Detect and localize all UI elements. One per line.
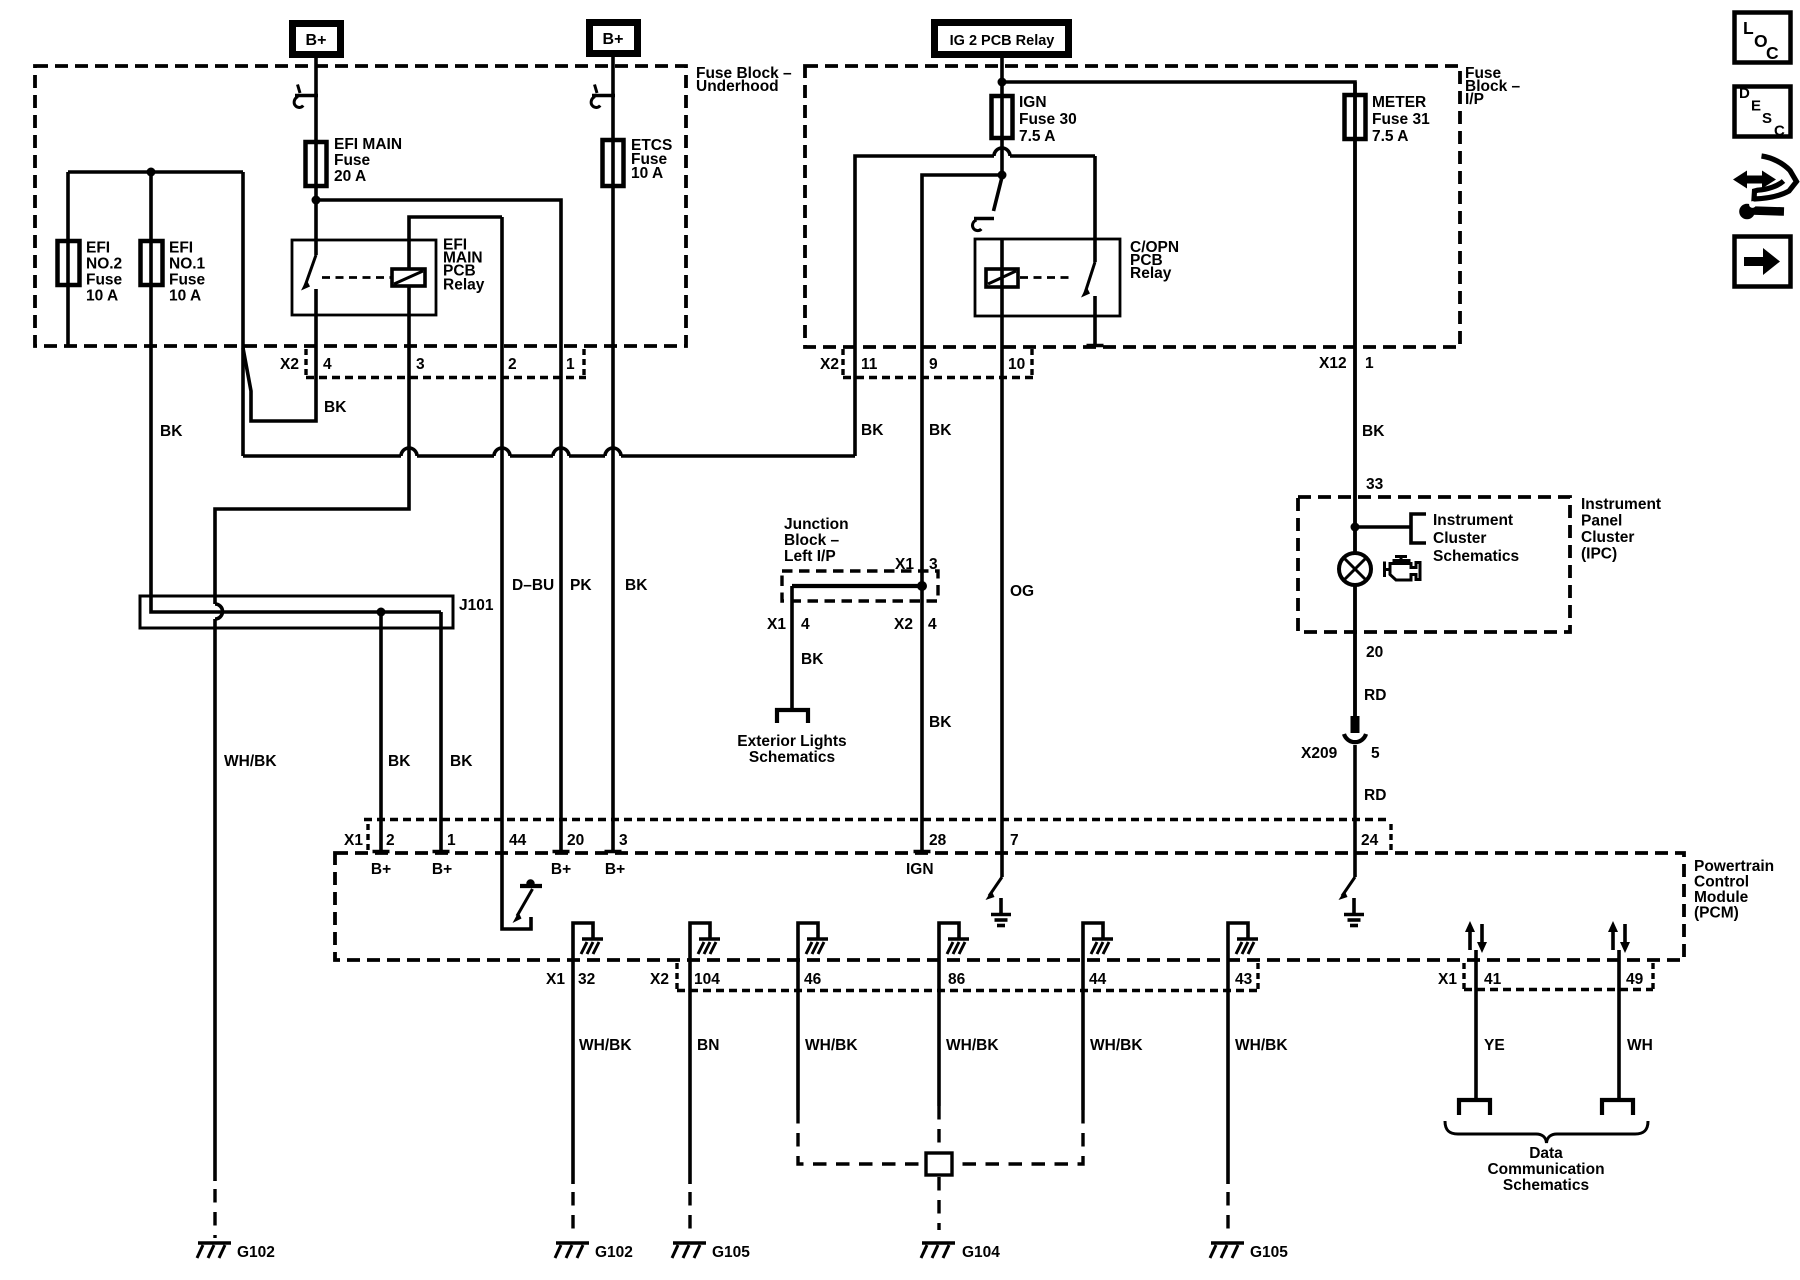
svg-text:X209: X209 <box>1301 745 1338 762</box>
offpage bracket pin41 <box>1459 1100 1490 1115</box>
node EFI MAIN fuse output <box>312 196 321 205</box>
relay C/OPN coil <box>986 269 1018 287</box>
svg-text:X12: X12 <box>1319 355 1347 372</box>
node J101 branch <box>377 608 386 617</box>
svg-text:WH/BK: WH/BK <box>579 1037 632 1054</box>
svg-text:Schematics: Schematics <box>1433 548 1519 565</box>
svg-text:Instrument: Instrument <box>1581 496 1661 513</box>
wire bus left vertical <box>241 172 245 456</box>
svg-text:Fuse 31: Fuse 31 <box>1372 111 1430 128</box>
svg-text:44: 44 <box>1089 971 1107 988</box>
wire lamp to IPC bottom <box>1353 585 1357 717</box>
icon arrow box <box>1735 237 1791 287</box>
svg-text:WH/BK: WH/BK <box>1235 1037 1288 1054</box>
wire IPC branch <box>1355 525 1411 529</box>
wire X209 to PCM pin24 <box>1353 745 1357 877</box>
PCM internal ground pin43 <box>1228 923 1258 960</box>
wire J101 to PCM pin2 <box>379 612 383 851</box>
wire pin104 to G105 <box>688 960 692 1184</box>
svg-text:WH/BK: WH/BK <box>805 1037 858 1054</box>
svg-text:EFI: EFI <box>169 240 193 257</box>
svg-text:EFI MAIN: EFI MAIN <box>334 136 402 153</box>
fuse EFI MAIN <box>306 142 327 186</box>
wire end caps at PCM <box>373 850 931 854</box>
svg-text:D–BU: D–BU <box>512 577 554 594</box>
svg-text:1: 1 <box>447 832 456 849</box>
node IGN fuse top junction <box>998 78 1007 87</box>
icon wrench <box>1739 204 1755 220</box>
svg-text:Control: Control <box>1694 874 1749 891</box>
svg-text:BK: BK <box>388 753 411 770</box>
wire EFI NO.1 down to J101 <box>151 172 441 612</box>
svg-text:NO.2: NO.2 <box>86 256 122 273</box>
svg-text:X1: X1 <box>344 832 363 849</box>
inline connector X209 <box>1351 716 1360 733</box>
fuse EFI NO.2 <box>58 241 80 285</box>
PCM internal ground pin46 <box>798 923 828 960</box>
wire hop over pin3 <box>401 448 417 456</box>
svg-text:Cluster: Cluster <box>1433 530 1486 547</box>
svg-text:E: E <box>1751 98 1761 115</box>
svg-text:Block –: Block – <box>784 532 840 549</box>
svg-text:G102: G102 <box>237 1244 275 1261</box>
relay C/OPN link dashes <box>1020 276 1072 279</box>
svg-text:9: 9 <box>929 356 938 373</box>
battery feed hook 2 <box>591 85 615 108</box>
svg-text:20: 20 <box>1366 644 1383 661</box>
svg-text:2: 2 <box>508 356 517 373</box>
PCM switch pin44 <box>517 889 533 916</box>
svg-text:IG 2 PCB Relay: IG 2 PCB Relay <box>950 33 1055 49</box>
wire relay pin4 U-turn <box>243 289 316 421</box>
svg-text:B+: B+ <box>432 861 452 878</box>
svg-text:4: 4 <box>801 616 810 633</box>
svg-text:11: 11 <box>861 356 878 373</box>
svg-text:S: S <box>1762 110 1772 127</box>
svg-text:3: 3 <box>619 832 628 849</box>
svg-text:C: C <box>1766 43 1779 63</box>
wire J101 to PCM pin1 <box>439 612 443 851</box>
connector X2 underhood bracket <box>304 349 307 377</box>
splice box G104 <box>926 1153 952 1175</box>
svg-text:7.5 A: 7.5 A <box>1019 128 1055 145</box>
svg-text:BK: BK <box>625 577 648 594</box>
svg-text:Junction: Junction <box>784 516 849 533</box>
engine MIL icon <box>1395 557 1407 561</box>
svg-text:10 A: 10 A <box>631 165 663 182</box>
svg-text:Exterior Lights: Exterior Lights <box>737 733 846 750</box>
ignition switch blade <box>994 177 1003 211</box>
earth ground pin24 <box>1344 898 1364 926</box>
icon DESC box <box>1735 87 1791 137</box>
fuse block I/P box <box>805 66 1460 347</box>
wire pin44b dashed to splice <box>1081 960 1085 1110</box>
wire coil top to PCM pin44 <box>502 217 531 929</box>
B+ terminal box 1 <box>293 24 341 55</box>
battery feed hook 1 <box>294 85 318 108</box>
wire pin49 serial data <box>1617 950 1621 1098</box>
wire B+2 down (ETCS feed to PCM pin 3) <box>611 57 615 851</box>
PCM internal ground pin32 <box>573 923 603 960</box>
wire pin43 to G105 <box>1226 960 1230 1184</box>
wire METER into IPC <box>1353 82 1357 553</box>
IG 2 PCB Relay box <box>935 23 1069 55</box>
svg-text:4: 4 <box>323 356 332 373</box>
svg-text:BK: BK <box>1362 423 1385 440</box>
svg-text:B+: B+ <box>605 861 625 878</box>
IPC box <box>1298 497 1570 632</box>
fuse block underhood box <box>35 66 686 346</box>
fuse METER 31 <box>1345 95 1366 139</box>
wire EFI NO.2 branch <box>66 172 70 346</box>
svg-text:20 A: 20 A <box>334 168 366 185</box>
data arrows pin49 <box>1608 921 1630 953</box>
wire hop over pin2 <box>494 448 510 456</box>
svg-text:Powertrain: Powertrain <box>1694 858 1774 875</box>
svg-text:(IPC): (IPC) <box>1581 546 1617 563</box>
wire hop over pin1 <box>553 448 569 456</box>
svg-text:X1: X1 <box>1438 971 1457 988</box>
relay C/OPN switch blade <box>1093 156 1097 262</box>
svg-text:Module: Module <box>1694 889 1749 906</box>
svg-text:BK: BK <box>929 714 952 731</box>
svg-text:G104: G104 <box>962 1244 1000 1261</box>
relay EFI MAIN link dashes <box>322 276 391 279</box>
svg-text:Fuse: Fuse <box>86 272 123 289</box>
relay C/OPN PCB box <box>975 239 1120 316</box>
earth ground pin7 <box>991 898 1011 926</box>
svg-text:7.5 A: 7.5 A <box>1372 128 1408 145</box>
ground G102 left <box>197 1243 231 1258</box>
wire IGN junction to METER fuse <box>1002 82 1355 717</box>
svg-text:(PCM): (PCM) <box>1694 905 1739 922</box>
wire hop over J101 bus <box>215 604 223 619</box>
svg-text:43: 43 <box>1235 971 1253 988</box>
node IPC branch <box>1351 523 1360 532</box>
PCM switch pin7 to ground <box>989 877 1002 896</box>
connector X1 PCM bracket <box>366 824 369 850</box>
data communication brace <box>1445 1121 1648 1143</box>
svg-text:X2: X2 <box>820 356 839 373</box>
svg-text:46: 46 <box>804 971 822 988</box>
svg-text:D: D <box>1739 85 1750 102</box>
svg-text:BK: BK <box>324 399 347 416</box>
svg-text:METER: METER <box>1372 94 1426 111</box>
wire coil bottom to WH/BK ground run <box>215 286 409 604</box>
svg-text:WH/BK: WH/BK <box>224 753 277 770</box>
svg-text:Cluster: Cluster <box>1581 529 1634 546</box>
svg-text:B+: B+ <box>551 861 571 878</box>
svg-text:Instrument: Instrument <box>1433 512 1513 529</box>
svg-text:I/P: I/P <box>1465 91 1484 108</box>
svg-text:B+: B+ <box>371 861 391 878</box>
svg-text:7: 7 <box>1010 832 1019 849</box>
wire pin41 serial data <box>1474 950 1478 1098</box>
svg-text:Fuse: Fuse <box>334 152 371 169</box>
svg-text:86: 86 <box>948 971 966 988</box>
svg-text:B+: B+ <box>306 32 327 49</box>
svg-text:C: C <box>1774 123 1785 140</box>
svg-text:WH/BK: WH/BK <box>946 1037 999 1054</box>
connector X2 PCM bottom bracket <box>675 963 678 989</box>
svg-text:X2: X2 <box>650 971 669 988</box>
svg-text:28: 28 <box>929 832 947 849</box>
icon LOC box <box>1735 13 1791 63</box>
wire pin32 to G102 <box>571 960 575 1184</box>
svg-text:Fuse 30: Fuse 30 <box>1019 111 1077 128</box>
svg-text:Underhood: Underhood <box>696 78 779 95</box>
svg-text:OG: OG <box>1010 583 1034 600</box>
svg-text:G105: G105 <box>1250 1244 1288 1261</box>
wire C/OPN coil to PCM pin7 <box>1000 240 1004 877</box>
fuse EFI NO.1 <box>141 241 163 285</box>
PCM internal ground pin104 <box>690 923 720 960</box>
svg-text:Panel: Panel <box>1581 513 1622 530</box>
svg-text:J101: J101 <box>459 597 494 614</box>
svg-text:32: 32 <box>578 971 595 988</box>
svg-text:1: 1 <box>1365 355 1374 372</box>
svg-text:BK: BK <box>861 422 884 439</box>
relay EFI MAIN switch blade <box>305 255 316 286</box>
offpage bracket exterior lights <box>777 710 808 723</box>
wire IG2 down <box>1000 56 1004 177</box>
wire B+1 down <box>314 58 318 255</box>
icon navigation arrows <box>1733 171 1776 189</box>
svg-text:IGN: IGN <box>1019 94 1047 111</box>
svg-text:WH: WH <box>1627 1037 1653 1054</box>
svg-text:L: L <box>1743 18 1754 38</box>
svg-text:Fuse: Fuse <box>169 272 206 289</box>
wire hop over IGN wire <box>994 148 1010 156</box>
PCM internal ground pin44b <box>1083 923 1113 960</box>
svg-text:B+: B+ <box>603 31 624 48</box>
svg-text:20: 20 <box>567 832 584 849</box>
connector X1 data bracket <box>1462 963 1465 989</box>
svg-text:BN: BN <box>697 1037 719 1054</box>
svg-text:10 A: 10 A <box>86 288 118 305</box>
wire top bus to fuses <box>68 170 243 174</box>
PCM box <box>335 853 1684 960</box>
svg-text:G102: G102 <box>595 1244 633 1261</box>
splice pack J101 <box>140 596 453 628</box>
junction block bus <box>792 584 922 588</box>
svg-text:44: 44 <box>509 832 527 849</box>
svg-text:PK: PK <box>570 577 592 594</box>
offpage bracket instrument cluster <box>1411 514 1426 543</box>
wire ground bus y456 <box>243 454 855 458</box>
svg-text:10: 10 <box>1008 356 1025 373</box>
relay C/OPN switch contact to block edge <box>1093 296 1097 345</box>
relay EFI MAIN PCB box <box>292 240 436 315</box>
wire X2-4 to PCM pin28 <box>920 586 924 851</box>
B+ terminal box 2 <box>590 23 638 54</box>
offpage bracket pin49 <box>1602 1100 1633 1115</box>
svg-text:1: 1 <box>566 356 575 373</box>
svg-text:X1: X1 <box>546 971 565 988</box>
relay EFI MAIN coil feed U <box>409 217 502 269</box>
svg-text:33: 33 <box>1366 476 1384 493</box>
svg-text:41: 41 <box>1484 971 1502 988</box>
svg-text:X1: X1 <box>895 556 914 573</box>
svg-text:NO.1: NO.1 <box>169 256 206 273</box>
svg-text:RD: RD <box>1364 787 1386 804</box>
wire fuse output to relay pin1 feed <box>316 200 561 851</box>
svg-text:5: 5 <box>1371 745 1380 762</box>
node junction block <box>917 581 927 591</box>
svg-text:3: 3 <box>416 356 425 373</box>
wire pin46 dashed to splice <box>796 960 800 1110</box>
svg-text:Relay: Relay <box>1130 265 1172 282</box>
svg-text:BK: BK <box>160 423 183 440</box>
svg-text:Schematics: Schematics <box>749 749 835 766</box>
wire bus right vertical to C/OPN <box>855 156 1095 456</box>
ignition switch hook <box>974 217 994 221</box>
svg-text:2: 2 <box>386 832 395 849</box>
svg-text:24: 24 <box>1361 832 1379 849</box>
wire pin86 to G104 <box>937 960 941 1106</box>
svg-text:X2: X2 <box>894 616 913 633</box>
svg-text:Communication: Communication <box>1487 1161 1604 1178</box>
svg-text:X2: X2 <box>280 356 299 373</box>
connector X2 I/P bracket <box>841 349 844 377</box>
wire junction block to exterior lights <box>790 586 794 709</box>
svg-text:WH/BK: WH/BK <box>1090 1037 1143 1054</box>
data arrows pin41 <box>1465 921 1487 953</box>
svg-text:RD: RD <box>1364 687 1386 704</box>
svg-text:IGN: IGN <box>906 861 934 878</box>
svg-text:G105: G105 <box>712 1244 750 1261</box>
svg-text:10 A: 10 A <box>169 288 201 305</box>
svg-text:YE: YE <box>1484 1037 1505 1054</box>
svg-text:Data: Data <box>1529 1145 1563 1162</box>
svg-text:BK: BK <box>929 422 952 439</box>
lamp IPC indicator <box>1339 553 1371 585</box>
fuse ETCS <box>603 140 624 186</box>
PCM switch pin24 to ground <box>1342 877 1355 896</box>
PCM internal ground pin86 <box>939 923 969 960</box>
wire WH/BK down <box>213 619 217 1181</box>
node IGN switch junction <box>998 171 1007 180</box>
svg-text:4: 4 <box>928 616 937 633</box>
svg-text:104: 104 <box>694 971 720 988</box>
svg-text:EFI: EFI <box>86 240 110 257</box>
relay EFI MAIN coil <box>392 269 425 286</box>
wire hop over ETCS <box>605 448 621 456</box>
svg-text:Left I/P: Left I/P <box>784 548 836 565</box>
svg-text:X1: X1 <box>767 616 786 633</box>
node EFI NO.1 tap <box>147 168 156 177</box>
wire junction to pin9 <box>922 175 1002 586</box>
fuse IGN 30 <box>992 96 1013 138</box>
svg-text:BK: BK <box>801 651 824 668</box>
svg-text:49: 49 <box>1626 971 1644 988</box>
svg-text:Schematics: Schematics <box>1503 1177 1589 1194</box>
svg-text:Relay: Relay <box>443 277 485 294</box>
svg-text:3: 3 <box>929 556 938 573</box>
svg-text:BK: BK <box>450 753 473 770</box>
